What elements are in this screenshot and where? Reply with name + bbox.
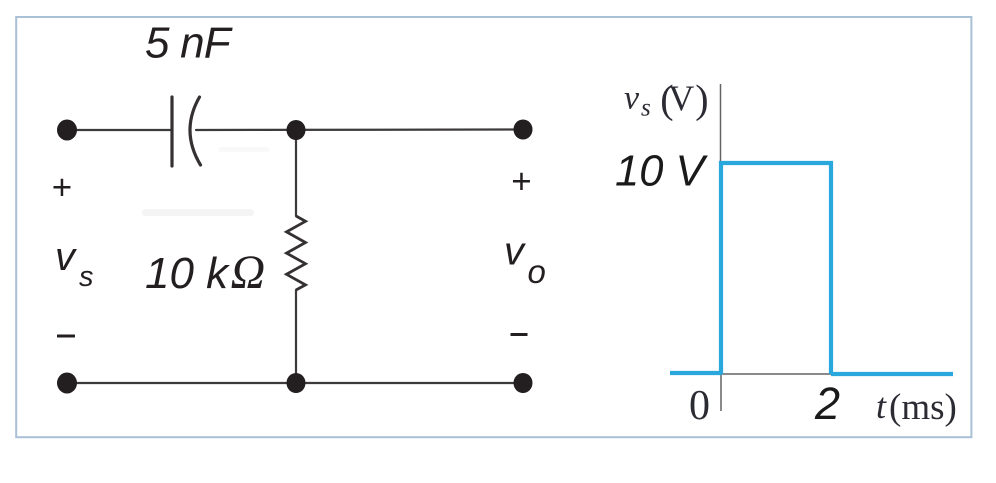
svg-text:5 nF: 5 nF: [145, 19, 233, 68]
svg-text:10 V: 10 V: [615, 148, 708, 196]
svg-text:+: +: [511, 162, 531, 201]
svg-text:): ): [695, 77, 708, 122]
svg-text:t: t: [876, 386, 887, 426]
svg-text:V: V: [668, 78, 694, 118]
svg-text:10 k: 10 k: [145, 249, 230, 298]
svg-text:v: v: [55, 235, 77, 279]
svg-text:v: v: [624, 80, 640, 117]
svg-text:s: s: [79, 261, 94, 293]
svg-text:v: v: [504, 230, 526, 274]
svg-text:(ms): (ms): [889, 387, 957, 428]
svg-text:s: s: [641, 95, 651, 122]
svg-text:Ω: Ω: [231, 246, 266, 299]
svg-text:0: 0: [689, 383, 710, 429]
svg-text:o: o: [528, 253, 546, 290]
svg-text:2: 2: [814, 378, 840, 429]
svg-text:+: +: [52, 168, 72, 207]
